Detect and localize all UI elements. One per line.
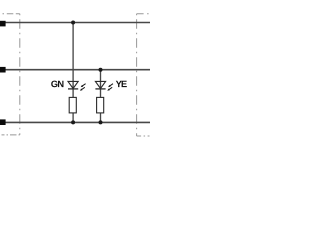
junction YE at middle bus: [99, 68, 103, 72]
terminal square middle-left: [0, 67, 6, 73]
enclosure boundary right vertical (dash-dot): [136, 14, 138, 136]
junction GN at bottom bus: [71, 120, 75, 124]
enclosure boundary left vertical (dash-dot): [19, 14, 21, 135]
wire middle bus: [0, 69, 150, 71]
wire top bus: [0, 22, 150, 24]
enclosure boundary top-right stub (dash-dot): [137, 13, 150, 15]
enclosure boundary top-left stub (dash-dot): [3, 13, 20, 15]
resistor GN branch: [69, 97, 76, 113]
enclosure boundary bottom-left stub (dash-dot): [2, 134, 20, 136]
junction YE at bottom bus: [99, 120, 103, 124]
resistor YE branch: [97, 97, 104, 113]
LED GN (triangle, cathode bar, arrows): [68, 81, 86, 90]
terminal square top-left: [0, 21, 6, 27]
wire YE branch vertical: [100, 70, 102, 123]
junction GN at top bus: [71, 21, 75, 25]
label GN: [51, 81, 63, 88]
wire bottom bus: [0, 121, 150, 123]
wire GN branch vertical: [72, 23, 74, 123]
LED YE (triangle, cathode bar, arrows): [95, 81, 113, 90]
label YE: [116, 81, 127, 87]
enclosure boundary bottom-right stub (dash-dot): [137, 135, 150, 137]
terminal square bottom-left: [0, 119, 6, 125]
